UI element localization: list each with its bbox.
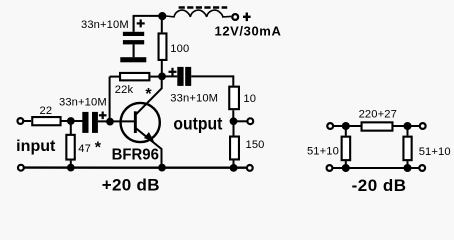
svg-text:150: 150 [246,139,265,151]
wire node C up to R100 [161,61,163,78]
resistor R 150 [230,137,264,160]
wire input cap to base [98,120,134,122]
svg-text:*: * [95,140,102,157]
wire top cap to node D [133,15,162,17]
svg-text:-20 dB: -20 dB [352,176,407,195]
attenuator terminal top-right [420,123,426,129]
svg-text:input: input [16,138,56,155]
output terminal bottom [247,165,253,171]
attenuator: left leg leads [345,126,347,136]
ground (top cap) [120,57,146,62]
svg-text:10: 10 [243,93,256,105]
node D (supply junction) [158,12,166,20]
emitter arrow [145,133,153,141]
svg-text:33n+10M: 33n+10M [170,93,218,105]
resistor 220+27 [359,109,397,131]
resistor R 10 [229,87,256,110]
wire R22 to input cap [62,120,83,122]
ferrite core (dashed line) [179,6,228,9]
capacitor C input 33n+10M [59,97,107,133]
wire corner down to R10 [232,75,234,85]
node (R47/rail junction) [67,164,75,172]
output terminal [247,118,253,124]
ground rail [25,166,247,168]
svg-text:51+10: 51+10 [419,146,451,158]
collector lead [136,79,162,115]
plus polarity mark (output cap) [169,68,177,76]
svg-text:22: 22 [40,105,53,117]
attenuator: top wire [334,125,420,127]
wire R10 bottom to node G [232,110,234,119]
node E (emitter/rail) [158,164,166,172]
node C (collector junction) [158,73,166,81]
attenuator: bottom wire [333,167,419,169]
resistor 51+10 left [307,137,350,161]
transistor Q1 BFR96 [112,79,162,168]
+ supply [243,13,251,22]
attenuator terminal bottom-right [419,165,425,171]
wire 22k right lead to node C [150,76,160,78]
wire node G to output terminal [234,120,247,122]
resistor 51+10 right [403,137,450,161]
attenuator node bottom-right [404,164,412,172]
svg-text:12V/30mA: 12V/30mA [215,23,282,38]
attenuator node top-right [404,122,412,130]
node B (base junction) [106,118,114,126]
resistor R 100 [159,33,190,60]
capacitor C out 33n+10M [169,67,219,105]
plus polarity mark (top cap) [137,19,145,27]
svg-text:51+10: 51+10 [307,146,339,158]
svg-text:47: 47 [78,143,91,155]
svg-text:+20 dB: +20 dB [102,175,160,194]
node A (input/R47 junction) [67,117,75,125]
wire node B up to R 22k [109,77,111,122]
svg-text:33n+10M: 33n+10M [81,19,129,31]
emitter lead [136,128,162,167]
node F (R150/rail) [230,164,238,172]
attenuator node bottom-left [342,164,350,172]
input terminal bottom [18,165,24,171]
wire R47 bottom to rail [70,161,72,168]
wire node G down to R150 [233,123,235,136]
supply terminal [232,14,238,20]
wire node C to output cap [163,75,177,77]
attenuator terminal top-left [327,123,333,129]
resistor R 22 [32,105,60,125]
wire to 22k left lead [110,76,119,78]
svg-text:220+27: 220+27 [359,109,397,121]
wire R100 top to node D [161,14,163,32]
svg-text:100: 100 [170,43,189,55]
capacitor C top 33n+10M [81,16,145,57]
attenuator: right leg leads [407,126,409,136]
plus polarity mark (input cap) [99,112,107,120]
attenuator terminal bottom-left [327,165,333,171]
svg-text:22k: 22k [115,84,134,96]
wire R150 bottom to rail [233,161,235,168]
wire node A down to R47 [70,121,72,134]
resistor R 47 [66,135,101,160]
svg-text:BFR96: BFR96 [112,146,159,163]
svg-text:33n+10M: 33n+10M [59,97,107,109]
wire input terminal to R22 [24,120,32,122]
wire output cap to corner [191,75,233,77]
attenuator node top-left [342,122,350,130]
inductor L1 (RF choke) [166,10,231,17]
input terminal top [18,118,24,124]
svg-text:output: output [173,114,222,134]
resistor R 22k [115,73,153,103]
node G (output junction) [230,117,238,125]
